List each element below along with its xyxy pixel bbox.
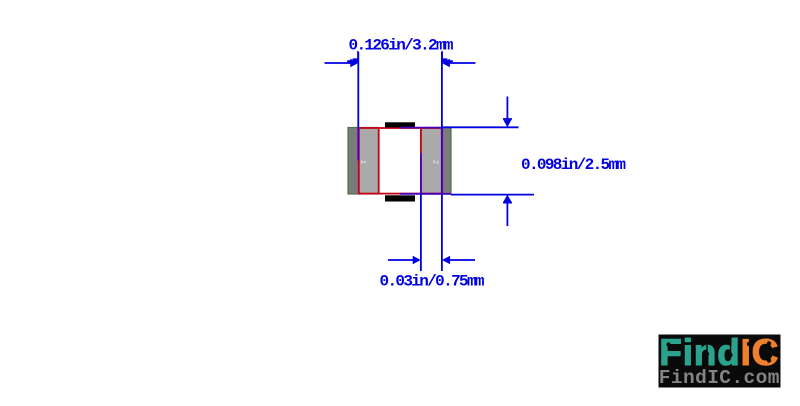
tick at top of left extension line [347, 51, 358, 63]
right dimension bottom extension line [400, 193, 534, 196]
svg-text:2: 2 [432, 160, 439, 164]
right dimension up arrow [503, 195, 512, 226]
top dimension right arrow [442, 59, 476, 67]
top polarity bar [385, 122, 415, 127]
svg-text:0.098in/2.5mm: 0.098in/2.5mm [521, 156, 626, 174]
bottom dimension extension line (x=421) [420, 153, 422, 271]
bottom dimension right arrow [442, 256, 475, 264]
dimension extension line left (x=358) [357, 52, 359, 161]
svg-text:0.03in/0.75mm: 0.03in/0.75mm [380, 273, 485, 291]
right dimension top extension line [400, 126, 519, 128]
terminal boundary line right [420, 128, 422, 194]
svg-text:0.126in/3.2mm: 0.126in/3.2mm [349, 37, 454, 55]
bottom dimension label 0.03in/0.75mm [380, 273, 485, 291]
tick at top of right extension line [441, 51, 452, 63]
terminal boundary line left [378, 128, 380, 194]
pad number 1 [359, 160, 366, 164]
FindIC logo circuit dots [666, 341, 771, 363]
component body outline (red) [359, 128, 442, 194]
top dimension label 0.126in/3.2mm [349, 37, 454, 55]
dimension extension line right (x=442) [441, 52, 443, 271]
svg-text:1: 1 [359, 160, 366, 164]
bottom polarity bar [385, 195, 415, 201]
FindIC logo background [659, 335, 781, 388]
bottom dimension left arrow [388, 256, 421, 264]
right dimension label 0.098in/2.5mm [521, 156, 626, 174]
component body translucent fill [358, 128, 442, 194]
top dimension left arrow [325, 59, 359, 67]
pad 2 (right land pad) [422, 128, 452, 195]
pad number 2 [432, 160, 439, 164]
FindIC.com caption [659, 367, 780, 389]
right dimension down arrow [503, 97, 512, 128]
FindIC logo wordmark [659, 332, 779, 373]
svg-text:FindIC.com: FindIC.com [659, 367, 780, 389]
pad 1 (left land pad) [348, 128, 379, 195]
